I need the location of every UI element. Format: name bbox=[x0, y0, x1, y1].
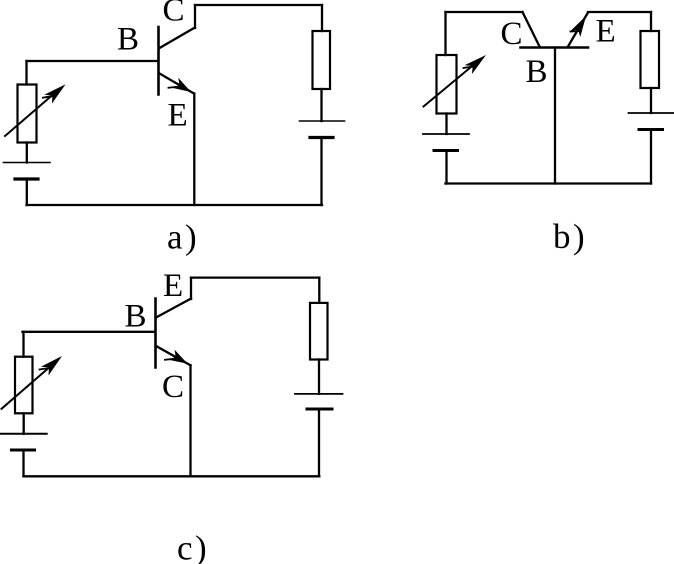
transistor Q2 emitter lead bbox=[568, 13, 588, 47]
wire top (a) bbox=[195, 4, 322, 6]
wire battery down (c) bbox=[318, 409, 320, 476]
battery GB5 long plate (c) bbox=[0, 433, 47, 435]
wire battery left down (c) bbox=[22, 450, 24, 476]
transistor Q3 base bar bbox=[154, 299, 157, 368]
wire base down (b) bbox=[554, 48, 556, 184]
wire emitter up (c) bbox=[190, 278, 192, 299]
wire battery down (a) bbox=[320, 138, 322, 206]
variable resistor R5 body (c) bbox=[15, 357, 33, 414]
wire base (c) bbox=[23, 331, 156, 333]
wire right top (c) bbox=[318, 278, 320, 303]
wire top (c) bbox=[191, 276, 319, 278]
svg-text:B: B bbox=[526, 54, 548, 90]
transistor Q1 emitter arrow bbox=[173, 78, 192, 92]
battery GB1 short plate (a) bbox=[15, 177, 38, 180]
transistor Q3 collector lead bbox=[157, 347, 191, 366]
wire resistor to battery (c) bbox=[318, 360, 320, 394]
variable resistor R3 body (b) bbox=[437, 55, 457, 114]
transistor Q2 emitter arrow bbox=[570, 16, 586, 37]
battery GB6 long plate (c) bbox=[295, 393, 343, 395]
resistor R2 (a) bbox=[313, 31, 331, 89]
variable resistor R5 arrow (c) bbox=[2, 362, 57, 409]
wire resistor to battery (a) bbox=[320, 89, 322, 121]
wire resistor to battery left (a) bbox=[26, 143, 28, 163]
wire battery right down (b) bbox=[650, 130, 652, 184]
transistor Q1 emitter lead bbox=[160, 74, 195, 94]
transistor Q3 emitter lead bbox=[157, 299, 191, 318]
transistor Q3 collector arrow bbox=[169, 350, 188, 364]
variable resistor R1 arrow (a) bbox=[5, 89, 60, 137]
svg-text:C: C bbox=[163, 0, 185, 29]
svg-text:a): a) bbox=[167, 218, 199, 257]
battery GB4 short plate (b) bbox=[639, 128, 663, 131]
wire bottom (a) bbox=[27, 204, 323, 206]
battery GB2 long plate (a) bbox=[300, 120, 345, 122]
svg-text:C: C bbox=[162, 369, 184, 405]
variable resistor R3 arrow (b) bbox=[424, 60, 481, 107]
battery GB3 long plate (b) bbox=[423, 133, 469, 135]
battery GB2 short plate (a) bbox=[310, 136, 333, 139]
resistor R6 (c) bbox=[310, 303, 328, 360]
wire collector up (a) bbox=[194, 5, 196, 28]
transistor Q1 collector lead bbox=[160, 28, 196, 49]
battery GB3 short plate (b) bbox=[434, 149, 458, 152]
svg-text:b): b) bbox=[553, 217, 587, 256]
battery GB6 short plate (c) bbox=[307, 408, 332, 411]
svg-text:B: B bbox=[125, 299, 147, 335]
battery GB5 short plate (c) bbox=[12, 449, 35, 452]
svg-text:c): c) bbox=[177, 529, 209, 564]
wire bottom (c) bbox=[24, 475, 320, 477]
wire left top (a) bbox=[25, 61, 27, 85]
wire right top (b) bbox=[650, 12, 652, 31]
transistor Q2 base bar bbox=[521, 46, 589, 49]
wire battery down (b) bbox=[445, 151, 447, 184]
wire bottom (b) bbox=[446, 182, 652, 184]
wire resistor to battery left (c) bbox=[23, 413, 25, 434]
transistor Q1 base bar bbox=[157, 27, 160, 95]
resistor R4 (b) bbox=[641, 31, 660, 88]
wire base (a) bbox=[27, 60, 159, 62]
wire battery left down (a) bbox=[26, 179, 28, 205]
variable resistor R1 body (a) bbox=[18, 85, 37, 143]
svg-text:E: E bbox=[168, 98, 188, 134]
battery GB1 long plate (a) bbox=[4, 162, 51, 164]
svg-text:C: C bbox=[501, 16, 523, 52]
wire left top (c) bbox=[22, 332, 24, 357]
transistor Q2 collector lead bbox=[523, 12, 540, 47]
wire right top (a) bbox=[321, 5, 323, 31]
wire top left (b) bbox=[446, 11, 523, 13]
wire left top (b) bbox=[444, 12, 446, 55]
svg-text:B: B bbox=[117, 22, 139, 58]
wire emitter down (a) bbox=[193, 94, 195, 206]
svg-text:E: E bbox=[163, 268, 183, 304]
wire resistor to battery right (b) bbox=[650, 88, 652, 113]
wire collector down (c) bbox=[189, 365, 191, 476]
wire top right (b) bbox=[588, 11, 651, 13]
battery GB4 long plate (b) bbox=[629, 112, 674, 114]
wire resistor to battery (b) bbox=[445, 114, 447, 135]
svg-text:E: E bbox=[596, 14, 616, 50]
